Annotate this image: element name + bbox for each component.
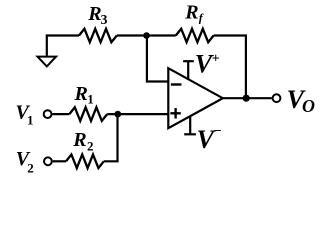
svg-text:+: + <box>212 51 220 66</box>
svg-text:2: 2 <box>87 138 94 153</box>
wire V2 to R2 <box>53 160 66 162</box>
op-amp U1 <box>168 68 223 128</box>
resistor Rf <box>176 29 214 42</box>
svg-text:R: R <box>87 3 101 25</box>
svg-text:2: 2 <box>27 160 34 175</box>
wire R1 to op-amp + input <box>107 113 168 115</box>
wire output <box>223 97 272 99</box>
svg-text:O: O <box>302 96 315 116</box>
op-amp plus input symbol <box>170 112 180 114</box>
ground <box>38 57 57 67</box>
resistor R2 <box>66 155 104 169</box>
svg-text:R: R <box>184 1 198 23</box>
pin V- power <box>189 117 191 134</box>
resistor R3 <box>79 29 117 42</box>
wire inverting input branch <box>147 36 168 82</box>
wire top middle <box>117 34 176 36</box>
wire V1 to R1 <box>52 113 69 115</box>
wire R2 up to junction <box>104 114 118 161</box>
node output junction <box>243 95 250 102</box>
wire ground riser and top-left segment <box>47 36 79 58</box>
terminal V2 <box>44 157 52 165</box>
op-amp minus input symbol <box>171 83 182 85</box>
terminal Vo <box>273 94 281 102</box>
svg-text:3: 3 <box>101 13 108 28</box>
svg-text:R: R <box>72 129 86 151</box>
node junction top <box>143 32 150 39</box>
pin V+ power <box>187 61 189 79</box>
node junction V1 line <box>114 111 121 118</box>
terminal V1 <box>44 110 52 118</box>
resistor R1 <box>69 107 107 121</box>
wire top right and down to output <box>214 36 246 99</box>
svg-text:1: 1 <box>27 113 34 128</box>
svg-text:−: − <box>214 124 222 139</box>
svg-text:1: 1 <box>87 91 94 106</box>
svg-text:R: R <box>74 83 88 105</box>
